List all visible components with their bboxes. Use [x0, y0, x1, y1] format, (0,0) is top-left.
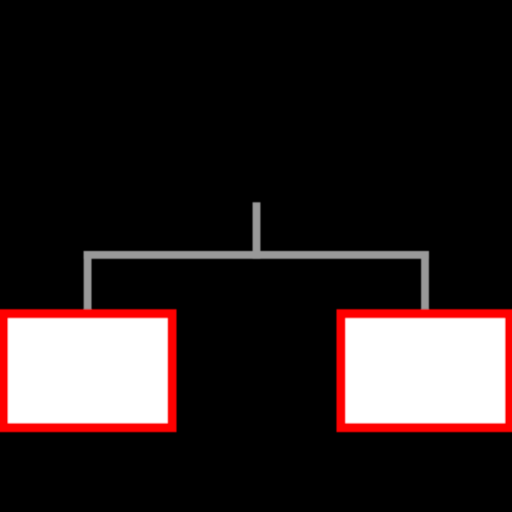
node: left box: [4, 314, 173, 428]
node: right box: [341, 314, 510, 428]
wire: horizontal bar: [84, 251, 429, 259]
wire: right drop: [421, 251, 429, 309]
wire: top stem: [253, 202, 261, 258]
wire: left drop: [84, 251, 92, 309]
